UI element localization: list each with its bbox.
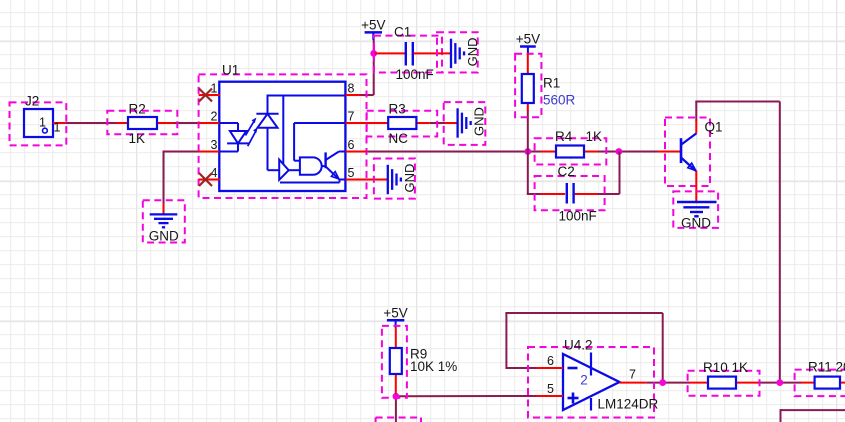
ground GND (U1 pin 5) bbox=[388, 164, 417, 195]
capacitor C1 selection box bbox=[374, 36, 442, 73]
resistor R9 selection box bbox=[382, 326, 407, 398]
wire C2 branch right bbox=[598, 152, 620, 195]
U1 pin 5 bbox=[345, 166, 388, 180]
U1 pin 4 bbox=[199, 166, 220, 180]
U1 internal output transistor bbox=[326, 152, 346, 180]
U1 internal LED bbox=[219, 123, 249, 152]
transistor Q1 bbox=[658, 120, 723, 202]
svg-text:Q1: Q1 bbox=[705, 120, 723, 135]
node +5V/C1 junction bbox=[370, 50, 377, 57]
wire R9 junction down bbox=[395, 396, 397, 422]
wire op-amp feedback loop pin6 to output bbox=[505, 313, 662, 383]
U1 internal enable line pin 7 bbox=[294, 123, 345, 161]
GND selection box (left) bbox=[143, 200, 185, 242]
resistor R10 1K bbox=[689, 360, 758, 389]
wire bottom right corner bbox=[781, 409, 845, 422]
wire output to R10 bbox=[647, 382, 690, 384]
U1 pin 8 bbox=[345, 82, 361, 96]
svg-text:7: 7 bbox=[629, 368, 636, 382]
svg-text:C2: C2 bbox=[558, 164, 575, 179]
U1 pin 3 bbox=[199, 138, 220, 152]
connector J2 selection box bbox=[10, 102, 67, 145]
svg-text:7: 7 bbox=[348, 110, 355, 124]
svg-text:1: 1 bbox=[54, 121, 61, 135]
op-amp pin 5 bbox=[536, 382, 563, 396]
svg-text:U4.2: U4.2 bbox=[564, 338, 593, 353]
transistor Q1 selection box bbox=[665, 118, 710, 187]
power +5V (R9) bbox=[383, 305, 407, 327]
svg-text:C1: C1 bbox=[394, 25, 411, 40]
op-amp U4.2 LM124DR bbox=[563, 338, 659, 412]
wire U1 pin 3 to GND bbox=[164, 151, 201, 215]
svg-text:1K: 1K bbox=[129, 131, 146, 146]
connector J2 bbox=[24, 94, 65, 138]
op-amp U4.2 selection box bbox=[528, 347, 654, 418]
resistor R4 1K bbox=[541, 129, 602, 158]
svg-text:8: 8 bbox=[348, 82, 355, 96]
svg-text:560R: 560R bbox=[543, 93, 576, 108]
svg-text:2: 2 bbox=[211, 110, 218, 124]
svg-text:10K 1%: 10K 1% bbox=[410, 359, 457, 374]
node R9 junction bbox=[393, 393, 400, 400]
capacitor C1 100nF bbox=[375, 25, 451, 83]
wire R10 to R11 bbox=[758, 382, 802, 384]
ground GND (left, below U1 pin 3) bbox=[149, 214, 179, 243]
GND selection box (Q1) bbox=[673, 191, 718, 228]
op-amp pin 6 bbox=[536, 354, 563, 368]
svg-text:LM124DR: LM124DR bbox=[598, 397, 659, 412]
ground GND (Q1) bbox=[677, 202, 717, 231]
no-ERC cross pin 4 bbox=[199, 173, 212, 186]
power +5V (top) bbox=[361, 17, 385, 39]
resistor R3 NC bbox=[375, 102, 430, 147]
svg-text:GND: GND bbox=[465, 38, 480, 67]
resistor R10 selection box bbox=[688, 371, 760, 396]
no-ERC cross pin 1 bbox=[199, 89, 212, 102]
svg-text:R11 20K: R11 20K bbox=[808, 360, 845, 375]
node R1/R4 left junction bbox=[524, 148, 531, 155]
capacitor C2 100nF bbox=[541, 164, 599, 224]
U1 LED emission arrows bbox=[246, 118, 258, 147]
svg-text:+5V: +5V bbox=[361, 17, 385, 32]
svg-text:R10 1K: R10 1K bbox=[703, 360, 748, 375]
U1 internal AND gate bbox=[300, 157, 326, 174]
resistor R2 selection box bbox=[107, 111, 177, 135]
U1 internal VCC rail pin 8 bbox=[267, 96, 346, 165]
resistor R4 selection box bbox=[535, 138, 607, 164]
svg-text:GND: GND bbox=[149, 229, 179, 244]
wire J2 to R2 bbox=[65, 122, 116, 124]
wire main net U1 pin6 to R4 region bbox=[366, 151, 659, 153]
optocoupler U1 body bbox=[219, 63, 345, 192]
partial selection box (bottom) bbox=[376, 418, 421, 422]
resistor R11 20K bbox=[801, 360, 845, 389]
svg-text:R2: R2 bbox=[129, 102, 146, 117]
GND selection box (C1) bbox=[437, 32, 478, 72]
svg-text:100nF: 100nF bbox=[559, 209, 597, 224]
svg-text:6: 6 bbox=[547, 354, 554, 368]
svg-text:R3: R3 bbox=[389, 102, 406, 117]
svg-text:1K: 1K bbox=[586, 129, 603, 144]
wire Q1 collector to right rail down to output row bbox=[695, 102, 780, 383]
capacitor C2 selection box bbox=[535, 176, 605, 210]
node op-amp output junction bbox=[659, 379, 666, 386]
svg-text:R1: R1 bbox=[543, 76, 560, 91]
resistor R1 selection box bbox=[515, 54, 541, 117]
op-amp pin 7 bbox=[620, 368, 647, 383]
svg-text:GND: GND bbox=[402, 164, 417, 193]
node R10/R11 junction bbox=[776, 379, 783, 386]
svg-text:2: 2 bbox=[580, 373, 588, 388]
svg-text:5: 5 bbox=[547, 382, 554, 396]
svg-text:1: 1 bbox=[39, 116, 46, 130]
U1 pin 7 bbox=[345, 110, 375, 124]
ground GND (R3) bbox=[445, 107, 487, 138]
svg-text:J2: J2 bbox=[25, 94, 39, 109]
resistor R11 selection box bbox=[795, 370, 845, 397]
svg-text:U1: U1 bbox=[222, 63, 239, 78]
wire R2 to U1 pin 2 bbox=[173, 122, 199, 124]
wire R3 to GND dark segment bbox=[430, 122, 445, 124]
optocoupler U1 selection box bbox=[199, 74, 367, 198]
resistor R9 10K 1% bbox=[390, 328, 457, 395]
ground GND (C1) bbox=[451, 38, 480, 69]
U1 pin 1 bbox=[199, 82, 220, 96]
wire R1 bottom bbox=[527, 110, 529, 152]
U1 internal photodiode bbox=[256, 96, 279, 171]
power +5V (R1) bbox=[516, 32, 540, 54]
svg-text:GND: GND bbox=[681, 216, 711, 231]
U1 pin 6 bbox=[345, 138, 366, 152]
svg-text:5: 5 bbox=[348, 166, 355, 180]
svg-text:GND: GND bbox=[472, 107, 487, 136]
wire R9 junction to op-amp pin 5 bbox=[396, 395, 536, 397]
resistor R2 1K bbox=[116, 102, 174, 147]
svg-text:3: 3 bbox=[211, 138, 218, 152]
resistor R1 560R bbox=[522, 54, 576, 112]
wire +5V to junction to U1 pin 8 bbox=[360, 39, 374, 95]
svg-text:100nF: 100nF bbox=[396, 67, 434, 82]
wire C2 branch left bbox=[527, 152, 542, 195]
svg-text:NC: NC bbox=[389, 131, 409, 146]
node R4/Q1 right junction bbox=[616, 148, 623, 155]
svg-text:6: 6 bbox=[348, 138, 355, 152]
U1 internal common return bbox=[280, 179, 340, 183]
svg-text:+5V: +5V bbox=[516, 32, 540, 47]
svg-text:R4: R4 bbox=[555, 129, 573, 144]
svg-text:+5V: +5V bbox=[383, 305, 407, 320]
GND selection box (R3) bbox=[444, 102, 486, 145]
GND selection box (U1 pin 5) bbox=[374, 159, 415, 199]
U1 internal buffer amp bbox=[279, 160, 300, 180]
U1 pin 2 bbox=[199, 110, 220, 124]
resistor R3 selection box bbox=[367, 111, 438, 137]
